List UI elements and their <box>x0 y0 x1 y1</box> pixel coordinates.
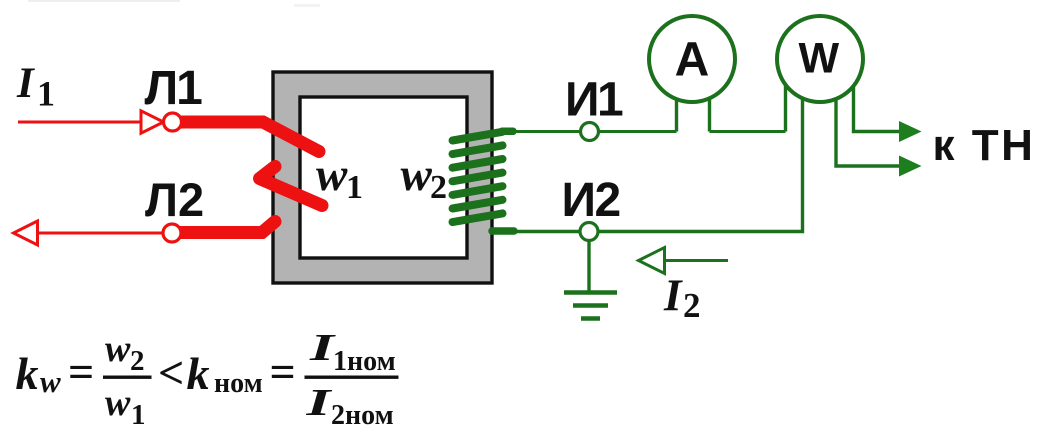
secondary winding bottom connector <box>492 227 514 235</box>
svg-text:W: W <box>799 35 840 83</box>
arrow to TH (bottom, solid) <box>899 156 922 177</box>
ammeter left lead <box>675 85 678 132</box>
svg-text:w: w <box>105 382 131 424</box>
svg-text:A: A <box>675 34 710 87</box>
arrow I1 return (open triangle pointing left) <box>14 221 38 245</box>
formula fraction bar 1 <box>103 376 152 379</box>
svg-text:I: I <box>663 271 683 321</box>
transformer core window (inner) <box>300 97 467 258</box>
svg-text:1ном: 1ном <box>333 346 396 377</box>
wattmeter left lead (current coil in) <box>784 80 787 132</box>
svg-text:к ТН: к ТН <box>933 121 1036 170</box>
primary winding w1 (middle chevron turn) <box>260 167 323 206</box>
secondary winding top connector <box>502 128 513 136</box>
terminal Л2 <box>163 224 181 242</box>
svg-text:=: = <box>68 346 94 397</box>
wire I2 arrow shaft <box>664 259 728 262</box>
arrow I1 direction (open triangle) <box>141 111 164 133</box>
ground stem <box>587 240 590 291</box>
svg-text:<: < <box>158 347 184 398</box>
svg-text:2: 2 <box>130 345 145 377</box>
svg-text:2: 2 <box>430 169 447 206</box>
wattmeter U2 circle <box>777 16 863 102</box>
terminal И1 <box>581 123 599 141</box>
svg-text:k: k <box>187 348 210 399</box>
wire ammeter to wattmeter <box>710 130 786 133</box>
svg-text:=: = <box>270 346 296 397</box>
svg-text:ном: ном <box>214 368 263 399</box>
svg-text:1: 1 <box>346 169 363 206</box>
svg-text:1: 1 <box>37 74 55 114</box>
faint cropped-text remnant top-left <box>28 0 180 2</box>
svg-text:1: 1 <box>131 399 146 431</box>
svg-text:2: 2 <box>683 286 701 325</box>
svg-text:w: w <box>316 149 348 201</box>
svg-text:I: I <box>305 382 333 424</box>
svg-text:I: I <box>16 60 35 107</box>
svg-text:И1: И1 <box>565 74 623 127</box>
primary winding w1 (bottom exit to Л2) <box>178 222 275 233</box>
terminal И2 <box>580 223 598 241</box>
primary winding w1 (thick red, top turn) <box>176 122 319 152</box>
terminal Л1 <box>164 113 182 131</box>
svg-text:I: I <box>308 327 336 369</box>
svg-text:Л1: Л1 <box>145 62 203 115</box>
ammeter U1 circle <box>649 16 735 102</box>
svg-text:w: w <box>401 149 433 201</box>
wire I1 input (thin red) <box>18 121 140 124</box>
secondary winding w2 (7 turns) <box>453 132 503 222</box>
svg-text:Л2: Л2 <box>145 173 204 226</box>
wattmeter voltage lead down to И2 wire <box>516 95 803 232</box>
wattmeter right lead to arrow (current coil out) <box>854 80 900 132</box>
transformer core (outer) <box>273 72 492 283</box>
svg-text:2ном: 2ном <box>331 400 394 431</box>
ammeter right lead <box>708 85 711 132</box>
formula k_w = w2/w1 < k_nom = I1nom/I2nom <box>16 327 399 431</box>
arrow I2 (open triangle pointing left) <box>639 248 665 274</box>
faint smudge top-middle <box>294 4 320 7</box>
svg-text:w: w <box>105 328 131 370</box>
wire И1 from winding to ammeter <box>502 130 677 133</box>
ground bars <box>564 293 617 319</box>
wattmeter voltage lead to arrow <box>836 95 899 166</box>
formula fraction bar 2 <box>305 376 399 379</box>
svg-text:И2: И2 <box>562 174 620 227</box>
wire Л2 output (thin red) <box>38 232 163 235</box>
svg-text:w: w <box>40 364 61 399</box>
arrow to TH (top, solid) <box>899 121 922 142</box>
svg-text:k: k <box>16 348 39 399</box>
